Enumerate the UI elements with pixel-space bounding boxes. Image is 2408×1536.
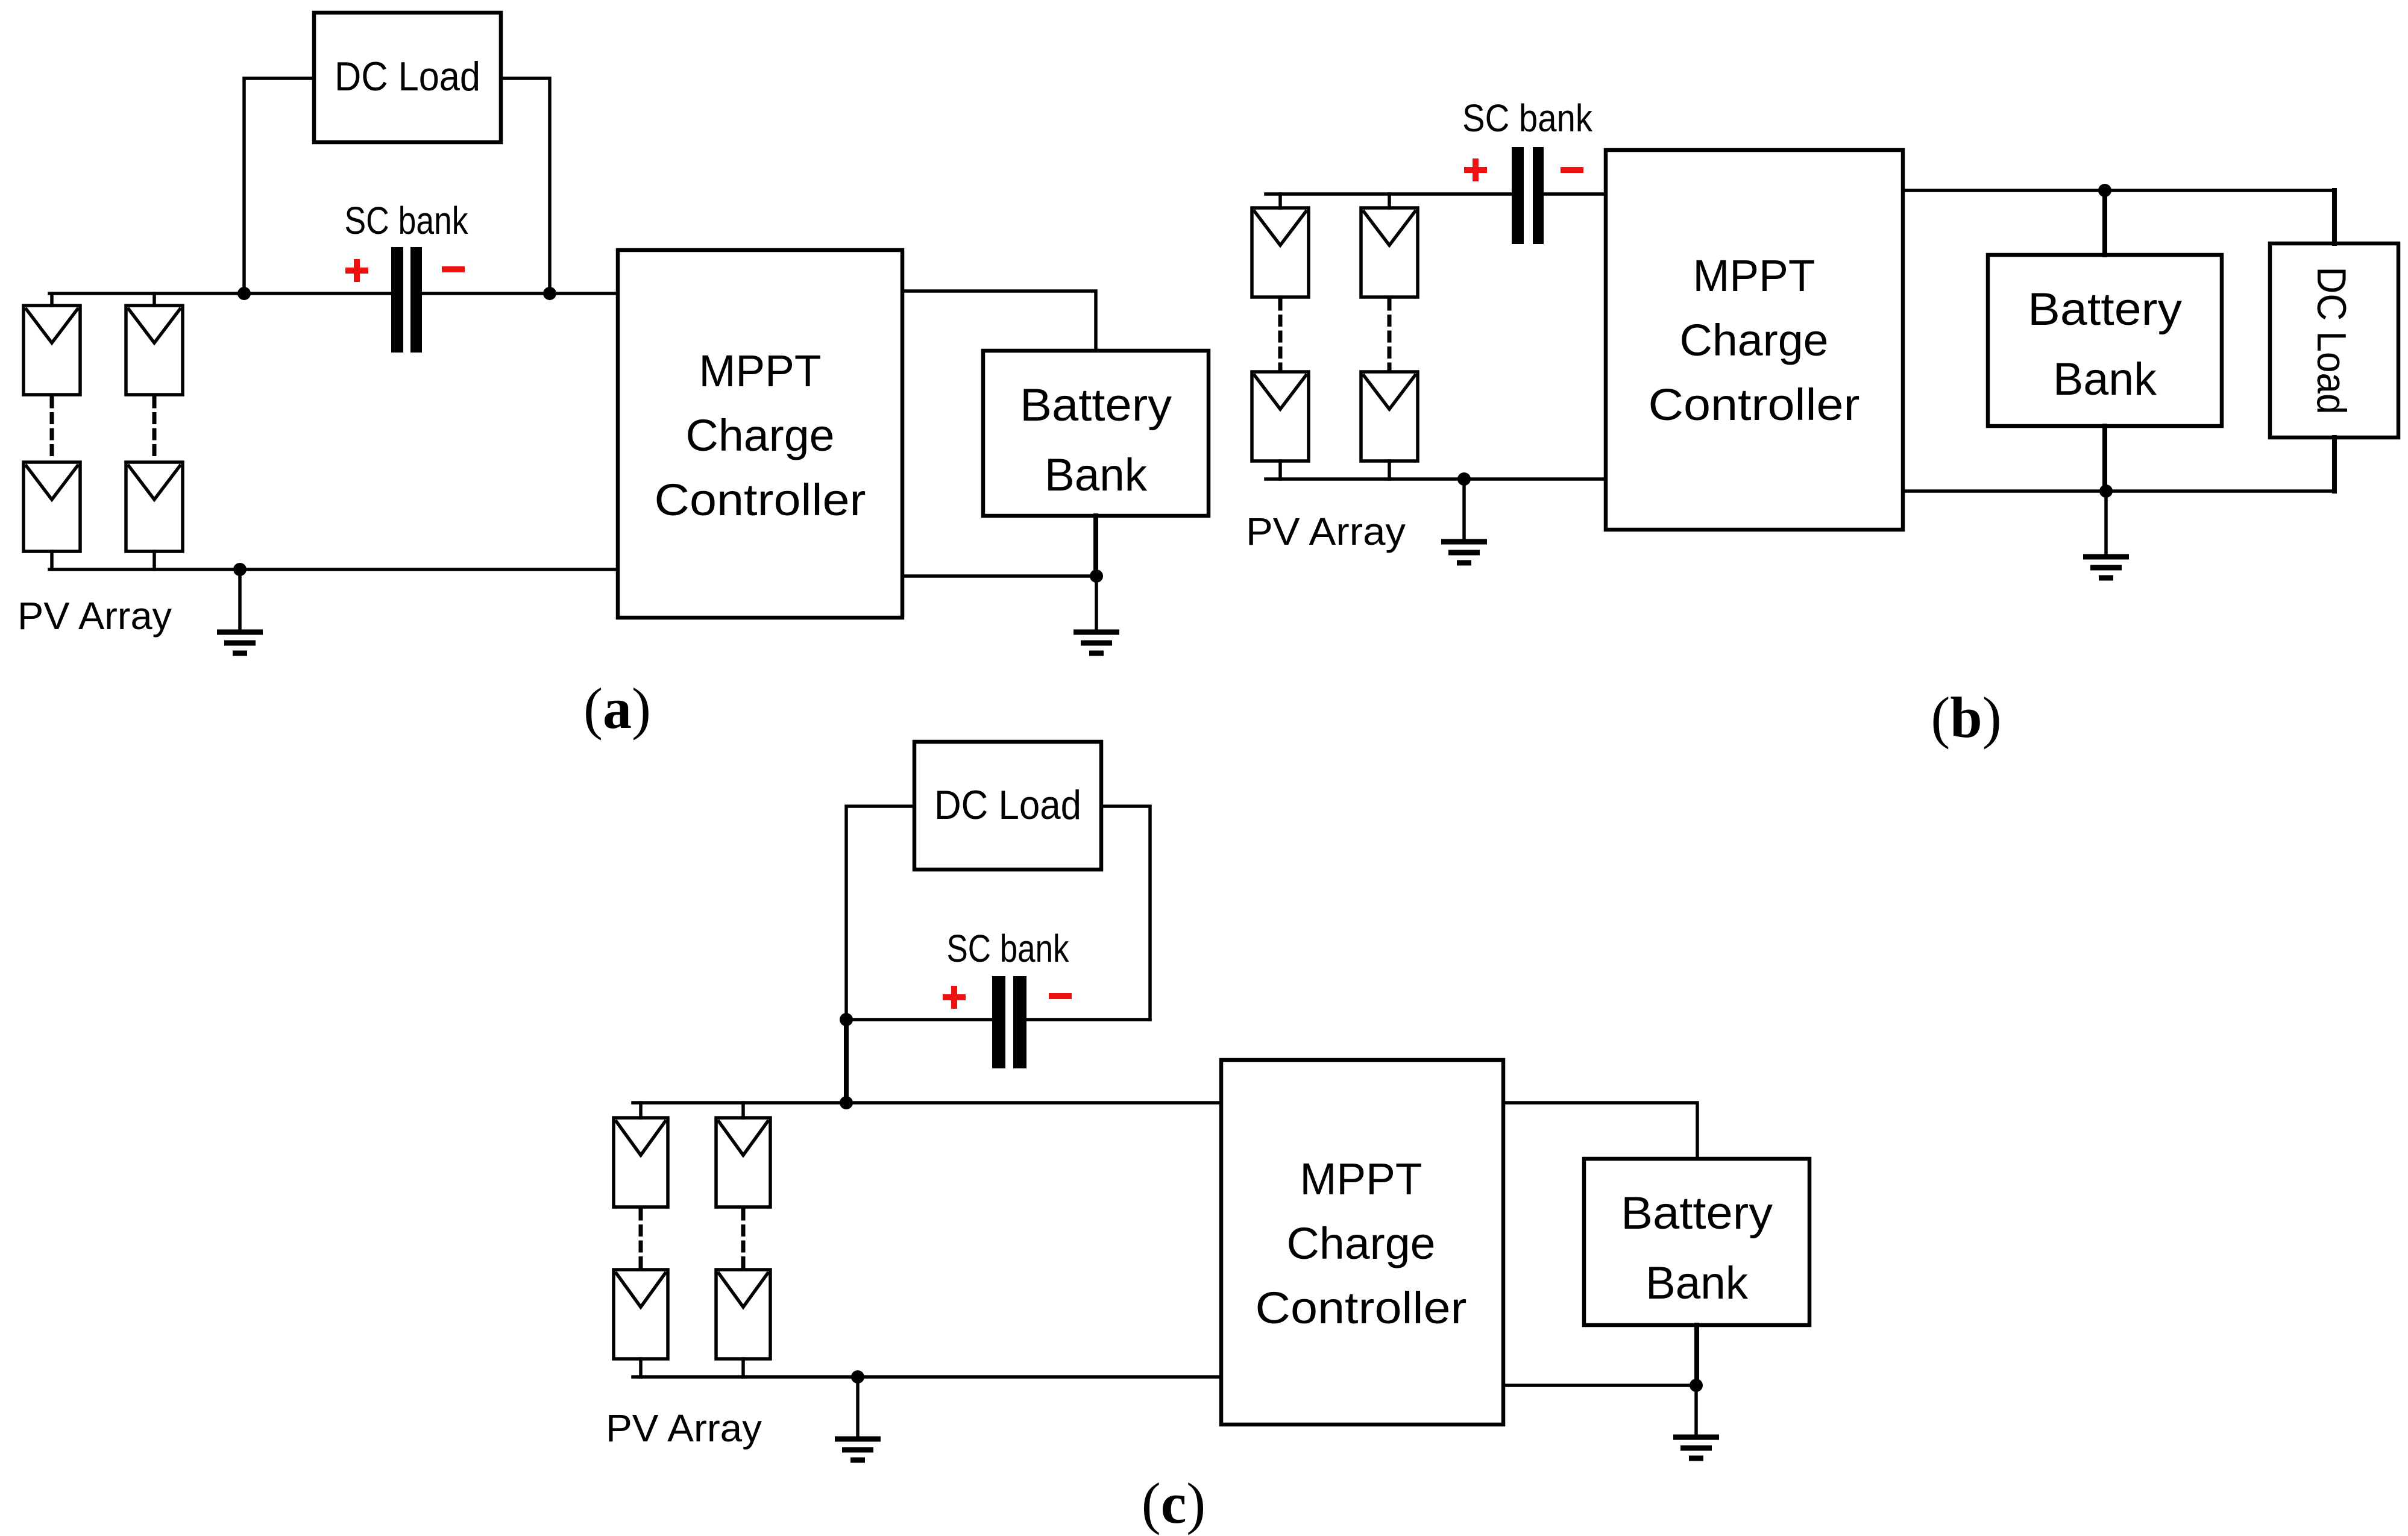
- PV module PV1 (a): [50, 293, 54, 306]
- svg-text:Charge: Charge: [1680, 315, 1829, 365]
- node C4 junction dot: [1690, 1379, 1703, 1392]
- wire MPPT out- bus (b): [1903, 489, 2334, 493]
- wire MPPT out- bus (c): [1503, 1384, 1696, 1387]
- PV module PV1 (b): [1278, 194, 1282, 208]
- PV module PV2 (a): [152, 293, 156, 306]
- PV module PV3 (b): [1252, 372, 1309, 461]
- capacitor SC bank (a): [391, 247, 403, 353]
- DC load block (b): [2270, 243, 2398, 437]
- battery bank block (c): [1584, 1159, 1809, 1325]
- ground symbol left (a): [238, 569, 242, 630]
- ground symbol left (b): [1462, 479, 1466, 540]
- MPPT charge controller block (c): [1221, 1060, 1503, 1425]
- PV module PV3 (c): [614, 1270, 668, 1359]
- wire dashed string PV1 (a): [50, 398, 54, 460]
- svg-text:Battery: Battery: [1621, 1188, 1773, 1239]
- battery bank block (a): [983, 351, 1209, 516]
- polarity + (b): [1464, 167, 1487, 173]
- svg-text:SC bank: SC bank: [345, 199, 469, 242]
- DC load block (a): [314, 13, 501, 142]
- capacitor SC bank (c): [992, 976, 1005, 1068]
- wire PV negative bus (a): [49, 568, 618, 571]
- wire battery positive stub (b): [2102, 190, 2107, 255]
- wire DC load bottom connector (b): [2332, 437, 2337, 491]
- wire node C1 to positive bus (c): [844, 1020, 849, 1103]
- wire MPPT out- bus (a): [902, 574, 1096, 578]
- svg-text:PV Array: PV Array: [606, 1406, 762, 1450]
- wire battery negative stub (b): [2102, 426, 2107, 491]
- PV module PV2 (b): [1388, 194, 1391, 208]
- wire DC load left to node C1: [846, 806, 914, 1020]
- svg-text:DC Load: DC Load: [335, 54, 480, 99]
- node C1 junction dot: [840, 1013, 853, 1026]
- wire capacitor right lead (b): [1544, 192, 1606, 196]
- subcircuit (b): [1246, 96, 2398, 750]
- svg-text:Bank: Bank: [1646, 1258, 1749, 1309]
- wire capacitor right lead (a): [422, 292, 618, 295]
- ground symbol right (c): [1694, 1385, 1698, 1435]
- subcircuit (a): [17, 13, 1209, 741]
- battery bank block (b): [1988, 255, 2222, 426]
- svg-text:MPPT: MPPT: [699, 346, 822, 396]
- wire MPPT out+ to battery (a): [902, 291, 1096, 351]
- svg-text:Controller: Controller: [1649, 380, 1860, 430]
- svg-text:Controller: Controller: [1256, 1283, 1467, 1333]
- node A1 junction dot: [237, 287, 251, 300]
- ground symbol right (a): [1095, 576, 1098, 630]
- wire DC load right to node C2: [1101, 806, 1150, 1020]
- node A2 junction dot: [543, 287, 556, 300]
- svg-text:Controller: Controller: [655, 475, 866, 525]
- node C2 junction dot: [840, 1096, 853, 1109]
- PV module PV3 (a): [24, 462, 80, 551]
- svg-text:Charge: Charge: [1287, 1218, 1436, 1268]
- svg-text:DC Load: DC Load: [934, 782, 1081, 828]
- wire capacitor right lead (c): [1026, 1018, 1150, 1021]
- PV module PV1 (c): [639, 1103, 643, 1118]
- svg-text:MPPT: MPPT: [1300, 1154, 1422, 1204]
- polarity - (b): [1561, 167, 1583, 173]
- wire dashed string PV1 (b): [1278, 301, 1283, 370]
- svg-text:MPPT: MPPT: [1693, 251, 1815, 301]
- wire PV positive bus (b): [1266, 192, 1512, 196]
- wire battery negative stub (c): [1694, 1325, 1699, 1385]
- wire PV positive bus (c): [633, 1101, 1221, 1105]
- wire PV positive bus (a): [49, 292, 391, 295]
- wire PV negative bus (c): [633, 1375, 1221, 1379]
- node B1 junction dot: [1457, 472, 1471, 486]
- wire DC load top connector (b): [2332, 190, 2337, 243]
- svg-text:Bank: Bank: [1045, 450, 1148, 501]
- svg-text:Battery: Battery: [2028, 284, 2182, 335]
- polarity + (c): [943, 994, 966, 1000]
- node B2 junction dot: [2098, 184, 2111, 197]
- polarity - (a): [442, 266, 465, 272]
- wire capacitor left lead (c): [846, 1018, 992, 1021]
- MPPT charge controller block (b): [1606, 150, 1903, 530]
- wire DC load left to node A1: [244, 78, 314, 293]
- wire dashed string PV2 (b): [1388, 301, 1392, 370]
- svg-text:DC Load: DC Load: [2309, 267, 2354, 415]
- svg-text:Battery: Battery: [1020, 380, 1172, 431]
- PV module PV2 (c): [741, 1103, 745, 1118]
- PV module PV4 (a): [126, 462, 183, 551]
- svg-text:PV Array: PV Array: [1246, 510, 1406, 553]
- polarity + (a): [345, 268, 368, 274]
- svg-text:(a): (a): [583, 676, 651, 741]
- wire DC load right to node A2: [501, 78, 550, 293]
- svg-text:Charge: Charge: [686, 410, 835, 460]
- node A3 junction dot: [233, 563, 247, 576]
- capacitor SC bank (b): [1512, 147, 1524, 244]
- svg-text:SC bank: SC bank: [1462, 96, 1593, 140]
- wire battery negative stub (a): [1093, 516, 1098, 576]
- wire dashed string PV2 (a): [152, 398, 157, 460]
- PV module PV4 (b): [1361, 372, 1418, 461]
- wire dashed string PV2 (c): [741, 1211, 746, 1268]
- PV module PV4 (c): [716, 1270, 770, 1359]
- svg-text:SC bank: SC bank: [947, 927, 1070, 970]
- DC load block (c): [914, 742, 1101, 870]
- svg-text:Bank: Bank: [2053, 354, 2157, 405]
- wire dashed string PV1 (c): [639, 1211, 643, 1268]
- polarity - (c): [1049, 993, 1072, 999]
- ground symbol right (b): [2104, 491, 2108, 555]
- node C3 junction dot: [851, 1370, 864, 1384]
- wire MPPT out+ to battery (c): [1503, 1103, 1697, 1159]
- node A4 junction dot: [1090, 569, 1103, 583]
- svg-text:PV Array: PV Array: [17, 594, 172, 638]
- svg-text:(b): (b): [1931, 685, 2001, 750]
- ground symbol left (c): [856, 1377, 860, 1437]
- wire MPPT out+ bus (b): [1903, 189, 2334, 192]
- MPPT charge controller block (a): [618, 250, 902, 618]
- wire PV negative bus (b): [1266, 477, 1606, 481]
- subcircuit (c): [606, 742, 1809, 1535]
- svg-text:(c): (c): [1142, 1471, 1206, 1535]
- node B3 junction dot: [2099, 484, 2113, 498]
